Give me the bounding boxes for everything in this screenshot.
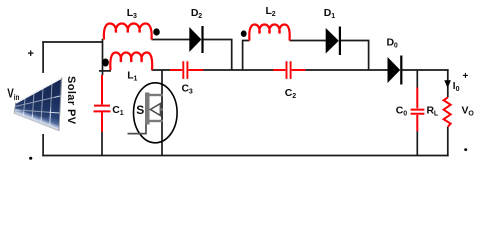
node dot L3 right: [153, 28, 160, 35]
wire D2 to corner down: [203, 40, 232, 71]
wire middle rail seg1: [152, 69, 171, 71]
wire C0 stubs: [416, 70, 418, 156]
capacitor C0: [411, 88, 425, 132]
diode D1: [326, 27, 341, 56]
mosfet gate bar: [145, 93, 150, 125]
svg-text:+: +: [463, 71, 469, 82]
inductor L2: [249, 25, 289, 41]
wire mosfet drain-source vertical: [161, 70, 163, 156]
wire L2 to D1: [290, 40, 327, 42]
mosfet gate lead: [128, 125, 147, 134]
mosfet Q/S: [128, 83, 178, 143]
wire bottom rail: [42, 155, 448, 157]
inductor L3: [104, 24, 152, 40]
wire input top: [42, 41, 102, 43]
wire output drop: [447, 69, 449, 156]
mosfet drain stub: [150, 94, 163, 96]
wire L3 to D2: [152, 39, 190, 41]
node input vertical: [102, 39, 104, 75]
resistor RL: [444, 98, 451, 127]
capacitor C2: [273, 61, 305, 79]
svg-text:+: +: [28, 48, 34, 60]
wire L2 left riser: [243, 41, 250, 71]
arrow I0: [444, 80, 451, 88]
wire left riser: [42, 41, 44, 156]
wire middle rail seg3: [305, 69, 387, 71]
wire middle rail seg2: [203, 69, 273, 71]
mosfet body circle: [134, 83, 178, 143]
inductor L1: [110, 53, 152, 71]
wire D1 to corner down: [341, 41, 369, 71]
label dot bottom left: [29, 157, 32, 160]
svg-text:Solar PV: Solar PV: [65, 76, 77, 125]
node dot L1 left: [102, 59, 109, 67]
svg-text:S: S: [136, 103, 144, 117]
solar PV panel: [12, 73, 65, 134]
diode D0: [388, 56, 403, 85]
capacitor C1: [94, 75, 111, 132]
mosfet body arrow: [150, 104, 160, 116]
label dot bottom right: [464, 148, 467, 151]
wire L1 left lead: [99, 70, 111, 72]
node dot L2 left: [241, 30, 247, 37]
mosfet source stub: [150, 120, 163, 122]
diode D2: [189, 26, 203, 53]
wire D0 to output: [402, 69, 449, 71]
capacitor C3: [170, 61, 203, 79]
wire C1 bottom stub: [101, 132, 103, 156]
